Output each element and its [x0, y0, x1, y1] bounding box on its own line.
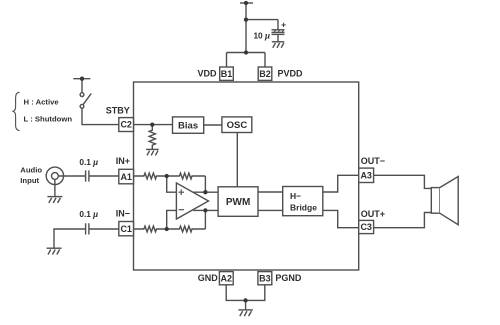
svg-text:C1: C1 — [120, 224, 132, 234]
svg-text:10 μ: 10 μ — [253, 30, 270, 40]
svg-text:PVDD: PVDD — [278, 68, 304, 78]
svg-text:IN+: IN+ — [116, 156, 130, 166]
svg-text:C3: C3 — [360, 222, 372, 232]
svg-text:0.1 μ: 0.1 μ — [79, 157, 98, 167]
svg-text:Bias: Bias — [178, 120, 198, 131]
svg-text:IN−: IN− — [116, 208, 130, 218]
svg-text:Input: Input — [20, 176, 39, 185]
svg-text:B1: B1 — [221, 69, 233, 79]
svg-text:C2: C2 — [120, 120, 132, 130]
svg-text:OUT+: OUT+ — [361, 209, 385, 219]
svg-text:A3: A3 — [360, 171, 372, 181]
svg-text:Audio: Audio — [20, 165, 42, 174]
svg-text:PGND: PGND — [275, 273, 302, 283]
svg-text:OUT−: OUT− — [361, 156, 385, 166]
svg-text:STBY: STBY — [106, 106, 130, 116]
svg-text:0.1 μ: 0.1 μ — [79, 209, 98, 219]
svg-text:+: + — [281, 20, 286, 30]
svg-text:Bridge: Bridge — [290, 202, 317, 212]
svg-text:H : Active: H : Active — [24, 98, 60, 107]
svg-text:GND: GND — [198, 273, 219, 283]
svg-text:OSC: OSC — [227, 120, 248, 131]
svg-text:A2: A2 — [221, 273, 233, 283]
svg-text:L : Shutdown: L : Shutdown — [24, 115, 73, 124]
svg-text:VDD: VDD — [197, 68, 217, 78]
svg-text:A1: A1 — [120, 172, 132, 182]
svg-text:B2: B2 — [259, 69, 271, 79]
svg-text:B3: B3 — [259, 273, 271, 283]
svg-text:H−: H− — [290, 191, 301, 201]
svg-text:PWM: PWM — [226, 197, 250, 208]
